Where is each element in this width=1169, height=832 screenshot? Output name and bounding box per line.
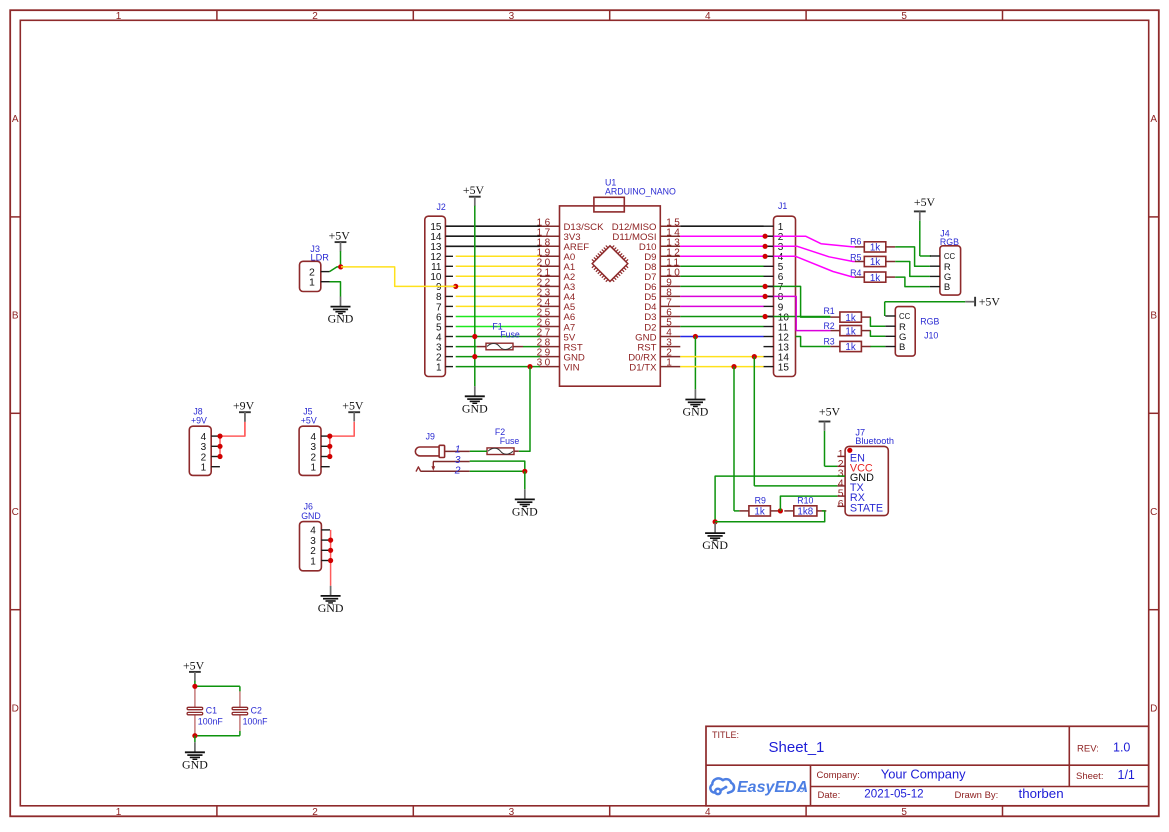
- svg-text:C1: C1: [206, 706, 217, 716]
- svg-text:Fuse: Fuse: [500, 436, 520, 446]
- svg-text:GND: GND: [182, 757, 208, 771]
- svg-text:1.0: 1.0: [1113, 741, 1130, 755]
- svg-text:1: 1: [116, 807, 122, 818]
- svg-text:1k: 1k: [870, 243, 880, 254]
- svg-text:R9: R9: [755, 495, 766, 505]
- svg-text:CC: CC: [899, 312, 911, 321]
- svg-text:A: A: [12, 114, 19, 125]
- svg-text:C2: C2: [251, 706, 262, 716]
- svg-text:1: 1: [116, 11, 122, 22]
- svg-text:R2: R2: [823, 321, 834, 331]
- svg-text:GND: GND: [702, 538, 728, 552]
- svg-text:R10: R10: [797, 495, 813, 505]
- svg-text:1: 1: [436, 362, 442, 373]
- svg-text:GND: GND: [512, 505, 538, 519]
- svg-text:1k: 1k: [870, 273, 880, 284]
- svg-text:Date:: Date:: [818, 790, 841, 801]
- svg-text:3: 3: [509, 807, 515, 818]
- svg-text:1/1: 1/1: [1118, 768, 1135, 782]
- svg-text:1k: 1k: [754, 507, 764, 518]
- svg-text:+5V: +5V: [329, 229, 351, 243]
- svg-text:J1: J1: [778, 201, 787, 211]
- svg-text:3: 3: [509, 11, 515, 22]
- svg-text:B: B: [1150, 311, 1157, 322]
- svg-text:1k: 1k: [870, 257, 880, 268]
- svg-text:1k: 1k: [845, 326, 855, 337]
- svg-text:Sheet:: Sheet:: [1076, 771, 1103, 782]
- svg-text:GND: GND: [683, 405, 709, 419]
- svg-text:C: C: [12, 507, 19, 518]
- svg-text:1: 1: [455, 445, 461, 456]
- svg-text:thorben: thorben: [1019, 786, 1064, 801]
- svg-text:J2: J2: [437, 202, 446, 212]
- svg-text:GND: GND: [462, 401, 488, 415]
- svg-text:Company:: Company:: [817, 770, 860, 781]
- svg-text:Fuse: Fuse: [500, 330, 520, 340]
- svg-text:4: 4: [705, 11, 711, 22]
- svg-text:2: 2: [312, 11, 318, 22]
- svg-text:LDR: LDR: [311, 253, 330, 263]
- svg-text:GND: GND: [328, 312, 354, 326]
- svg-text:EasyEDA: EasyEDA: [737, 779, 808, 796]
- svg-text:STATE: STATE: [850, 502, 883, 514]
- svg-text:4: 4: [705, 807, 711, 818]
- svg-text:C: C: [1150, 507, 1157, 518]
- svg-text:+5V: +5V: [979, 295, 1001, 309]
- svg-text:100nF: 100nF: [198, 717, 224, 727]
- svg-text:ARDUINO_NANO: ARDUINO_NANO: [605, 187, 676, 197]
- svg-text:1: 1: [310, 463, 316, 474]
- svg-text:2021-05-12: 2021-05-12: [864, 788, 923, 801]
- svg-text:+5V: +5V: [819, 405, 841, 419]
- svg-text:+5V: +5V: [301, 416, 317, 426]
- svg-text:R3: R3: [823, 337, 834, 347]
- svg-text:+9V: +9V: [233, 399, 255, 413]
- svg-text:REV:: REV:: [1077, 744, 1099, 755]
- svg-text:VIN: VIN: [564, 362, 580, 373]
- svg-text:GND: GND: [301, 511, 321, 521]
- svg-text:1: 1: [310, 556, 316, 567]
- svg-text:2: 2: [312, 807, 318, 818]
- svg-text:+5V: +5V: [342, 399, 364, 413]
- svg-text:RGB: RGB: [920, 316, 939, 326]
- svg-text:RGB: RGB: [940, 237, 959, 247]
- svg-text:R6: R6: [850, 236, 861, 246]
- svg-text:R1: R1: [823, 306, 834, 316]
- svg-text:1: 1: [201, 463, 207, 474]
- svg-text:15: 15: [778, 362, 790, 373]
- svg-text:1k: 1k: [845, 313, 855, 324]
- svg-text:Drawn By:: Drawn By:: [955, 790, 999, 801]
- svg-text:J10: J10: [924, 330, 938, 340]
- svg-text:B: B: [899, 342, 905, 353]
- svg-text:Bluetooth: Bluetooth: [855, 436, 894, 446]
- svg-text:B: B: [944, 282, 950, 293]
- svg-text:+5V: +5V: [183, 658, 205, 672]
- svg-text:TITLE:: TITLE:: [712, 730, 739, 740]
- svg-text:+5V: +5V: [463, 183, 485, 197]
- svg-text:1k8: 1k8: [797, 507, 813, 518]
- svg-text:1: 1: [666, 358, 674, 369]
- svg-text:6: 6: [838, 498, 844, 510]
- svg-text:A: A: [1150, 114, 1157, 125]
- svg-text:+9V: +9V: [191, 416, 207, 426]
- svg-text:+5V: +5V: [914, 195, 936, 209]
- svg-text:2: 2: [454, 465, 461, 476]
- svg-text:D: D: [12, 703, 19, 714]
- svg-text:B: B: [12, 311, 19, 322]
- svg-text:100nF: 100nF: [243, 717, 269, 727]
- svg-text:1k: 1k: [845, 342, 855, 353]
- svg-text:J9: J9: [426, 432, 435, 442]
- svg-text:1: 1: [309, 277, 315, 289]
- svg-text:5: 5: [901, 11, 907, 22]
- svg-text:5: 5: [901, 807, 907, 818]
- svg-text:D1/TX: D1/TX: [629, 362, 657, 373]
- svg-text:GND: GND: [318, 601, 344, 615]
- svg-text:Your Company: Your Company: [881, 766, 966, 781]
- svg-text:CC: CC: [944, 252, 956, 261]
- svg-text:Sheet_1: Sheet_1: [769, 739, 825, 756]
- svg-text:D: D: [1150, 703, 1157, 714]
